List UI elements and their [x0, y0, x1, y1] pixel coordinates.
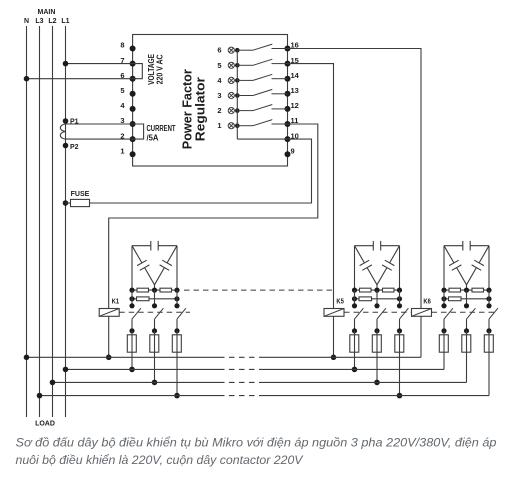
linkage K5 dashed [344, 311, 411, 313]
svg-text:9: 9 [291, 146, 295, 155]
svg-text:1: 1 [217, 121, 221, 130]
wire L2 bus solid right [260, 381, 467, 383]
wire 1 contact bottom 3 [176, 319, 178, 331]
node 1 row1 left [129, 288, 134, 293]
node 1 row1 right [174, 288, 179, 293]
contact 6-2 blade [467, 308, 476, 319]
svg-text:6: 6 [217, 46, 221, 55]
wire L1 bus solid left [66, 368, 220, 370]
contact 1-2 blade [155, 308, 164, 319]
relay contact to pin 16 [237, 44, 287, 50]
svg-text:MAIN: MAIN [38, 9, 56, 16]
svg-text:4: 4 [120, 101, 125, 110]
node 5 row1 left [352, 288, 357, 293]
node 5 fuse top 2 [374, 328, 379, 333]
resistor 6R1 [449, 288, 461, 292]
resistor 5R2 [383, 288, 395, 292]
wire main L1 vertical [65, 26, 67, 417]
capacitor 5c diagonal [377, 246, 400, 285]
node lamp 6 common [235, 48, 240, 53]
capacitor 1c diagonal [155, 246, 178, 285]
node P2 [63, 143, 69, 149]
wire bank 6 resistor row 1 [444, 289, 489, 291]
wire K1 coil to N bus [108, 316, 110, 357]
fuse 1F2 [150, 331, 159, 383]
node N bus start [24, 355, 30, 361]
node K1 on N bus [106, 355, 112, 361]
svg-text:K6: K6 [423, 297, 431, 306]
wire 5 column 2 drop [376, 290, 378, 306]
node 6 row2 right [486, 296, 491, 301]
wire main L2 vertical [52, 26, 54, 417]
fuse 1F1 [127, 331, 136, 370]
contact 1-1 blade [132, 308, 141, 319]
svg-text:P2: P2 [70, 144, 79, 151]
wire 6 column 1 drop [443, 290, 445, 306]
wire 1 column 1 drop [131, 290, 133, 306]
pin 5 terminal [130, 91, 136, 97]
resistor 6R2 [472, 288, 484, 292]
wire N bus dashed gap [219, 356, 260, 358]
node 1 contact top 1 [129, 303, 134, 308]
svg-text:8: 8 [120, 41, 124, 50]
indicator lamp 3 [228, 92, 234, 98]
wire bank 1 right side [176, 246, 178, 290]
svg-text:1: 1 [120, 146, 124, 155]
node 6 row1 mid [464, 288, 469, 293]
node lamp 4 common [235, 78, 240, 83]
wire main N vertical [26, 26, 28, 417]
node lamp 1 common [235, 123, 240, 128]
svg-text:5: 5 [120, 86, 124, 95]
node 6 contact top 1 [441, 303, 446, 308]
wire bank 5 resistor row 2 [355, 298, 400, 300]
wire bank 5 resistor row 1 [355, 289, 400, 291]
node N pin6 junction [24, 76, 30, 82]
wire K6 coil to N bus [420, 316, 422, 357]
dashed continuation row [184, 289, 335, 291]
wire 6 column 2 drop [466, 290, 468, 306]
node lamp 5 common [235, 63, 240, 68]
node 1 contact top 3 [174, 303, 179, 308]
wire common to pin 10 [237, 138, 287, 140]
node K5 on N bus [331, 355, 337, 361]
indicator lamp 2 [228, 108, 234, 114]
fuse 6F1 [439, 331, 448, 370]
wire L1 to fuse [66, 202, 71, 204]
contactor coil K6 [412, 309, 432, 317]
wire lamp common vertical [236, 50, 238, 139]
node L1 bus start [63, 367, 69, 373]
transformer CT secondary [60, 124, 66, 139]
svg-text:5: 5 [217, 61, 221, 70]
capacitor bank 5 top wire [355, 245, 400, 247]
node 6 row2 left [441, 296, 446, 301]
svg-text:13: 13 [291, 86, 299, 95]
pin 11 terminal [285, 121, 291, 127]
wire 5 column 3 drop [399, 290, 401, 306]
pin 7 terminal [130, 61, 136, 67]
relay contact to pin 15 [237, 59, 287, 65]
contact 5-1 blade [355, 308, 364, 319]
pin 16 terminal [285, 46, 291, 52]
wire 1 column 2 drop [154, 290, 156, 306]
node 5 contact top 3 [397, 303, 402, 308]
pin 9 terminal [285, 151, 291, 157]
wire K5 coil to N bus [333, 316, 335, 357]
capacitor 5b diagonal [355, 246, 378, 285]
node 5 row2 left [352, 296, 357, 301]
wire fuse to pin 10 [90, 139, 312, 203]
node 6 fuse top 2 [464, 328, 469, 333]
op-amp regulator box outline [133, 35, 288, 167]
wire L2 bus dashed gap [219, 381, 260, 383]
node 5 row1 mid [374, 288, 379, 293]
resistor 1R3 [137, 297, 150, 301]
linkage K1 dashed [119, 311, 190, 313]
wire CT to pin 3 [66, 123, 133, 125]
svg-text:CURRENT: CURRENT [147, 124, 176, 133]
pin 3 terminal [130, 121, 136, 127]
node 6 fuse top 3 [486, 328, 491, 333]
wire 5 contact bottom 2 [376, 319, 378, 331]
fuse 6F3 [484, 331, 493, 396]
node 1 fuse 1 on bus [129, 367, 135, 373]
node 5 fuse top 1 [352, 328, 357, 333]
capacitor 1b diagonal [132, 246, 155, 285]
fuse F1 control [71, 199, 90, 206]
wire CT to pin 2 [66, 138, 133, 140]
node 1 fuse 2 on bus [152, 380, 158, 386]
wire bank 5 left side [354, 246, 356, 290]
capacitor 5a plates [373, 241, 380, 251]
wire main L3 vertical [39, 26, 41, 417]
svg-text:Sơ đồ đấu dây bộ điều khiển tụ: Sơ đồ đấu dây bộ điều khiển tụ bù Mikro … [16, 436, 497, 450]
capacitor bank 1 top wire [132, 245, 177, 247]
wire 5 contact bottom 3 [399, 319, 401, 331]
wire 1 column 3 drop [176, 290, 178, 306]
fuse 5F3 [395, 331, 404, 396]
node lamp 2 common [235, 108, 240, 113]
node P1 [63, 118, 69, 124]
wire L2 bus solid left [53, 381, 220, 383]
wire pin 11 to K1 coil [109, 124, 318, 309]
svg-text:N: N [24, 18, 29, 25]
svg-text:L1: L1 [61, 18, 69, 25]
node 6 fuse top 1 [441, 328, 446, 333]
wire bank 6 left side [443, 246, 445, 290]
node 1 fuse top 2 [152, 328, 157, 333]
wire L3 bus solid left [40, 395, 220, 397]
contactor coil K1 [99, 309, 119, 317]
node 5 contact top 2 [374, 303, 379, 308]
wire L1 bus dashed gap [219, 368, 260, 370]
node 1 row2 left [129, 296, 134, 301]
node 5 fuse 3 on bus [397, 393, 403, 399]
capacitor 1a plates [151, 241, 158, 251]
contact 6-1 blade [444, 308, 453, 319]
wire L1 to pin 7 [66, 63, 133, 65]
node 1 fuse top 3 [174, 328, 179, 333]
svg-text:220 V AC: 220 V AC [155, 54, 164, 84]
wire 1 contact bottom 1 [131, 319, 133, 331]
node 5 contact top 1 [352, 303, 357, 308]
indicator lamp 4 [228, 77, 234, 83]
wire 6 contact bottom 1 [443, 319, 445, 331]
wire 1 contact bottom 2 [154, 319, 156, 331]
svg-text:/5A: /5A [147, 134, 159, 143]
svg-text:4: 4 [217, 76, 222, 85]
wire 5 column 1 drop [354, 290, 356, 306]
svg-text:Regulator: Regulator [193, 77, 208, 141]
wire bank 6 center stub [466, 285, 468, 290]
wire bank 1 resistor row 1 [132, 289, 177, 291]
svg-text:12: 12 [291, 101, 299, 110]
svg-text:L3: L3 [35, 18, 43, 25]
node 5 row1 right [397, 288, 402, 293]
relay contact to pin 14 [237, 74, 287, 80]
node L1 fuse junction [63, 200, 69, 206]
indicator lamp 5 [228, 62, 234, 68]
resistor 5R1 [360, 288, 372, 292]
capacitor bank 6 top wire [444, 245, 489, 247]
wire 6 contact bottom 3 [488, 319, 490, 331]
wire bank 1 center stub [154, 285, 156, 290]
wire N bus solid left [27, 356, 220, 358]
pin 8 terminal [130, 46, 136, 52]
contact 6-3 blade [489, 308, 498, 319]
resistor 6R3 [449, 297, 462, 301]
node 5 fuse 2 on bus [374, 380, 380, 386]
svg-text:2: 2 [217, 106, 221, 115]
wire N bus solid right [260, 356, 421, 358]
svg-text:K1: K1 [112, 297, 120, 306]
svg-text:3: 3 [217, 91, 221, 100]
wire pin 16 to K6 coil [288, 49, 422, 309]
pin 6 terminal [130, 76, 136, 82]
pin 13 terminal [285, 91, 291, 97]
node 5 fuse top 3 [397, 328, 402, 333]
wire 6 contact bottom 2 [466, 319, 468, 331]
pin 4 terminal [130, 106, 136, 112]
wire bank 1 resistor row 2 [132, 298, 177, 300]
fuse 5F2 [372, 331, 381, 383]
wire L3 bus solid right [260, 395, 489, 397]
node lamp 3 common [235, 93, 240, 98]
svg-text:LOAD: LOAD [35, 421, 55, 428]
node 1 fuse 3 on bus [174, 393, 180, 399]
wire 5 contact bottom 1 [354, 319, 356, 331]
pin 1 terminal [130, 151, 136, 157]
wire bank 6 right side [488, 246, 490, 290]
node 5 row2 right [397, 296, 402, 301]
wire bank 1 left side [131, 246, 133, 290]
wire bank 5 right side [399, 246, 401, 290]
indicator lamp 6 [228, 47, 234, 53]
fuse 5F1 [350, 331, 359, 370]
node 1 row1 mid [152, 288, 157, 293]
svg-text:14: 14 [291, 71, 300, 80]
resistor 1R1 [137, 288, 149, 292]
node 6 row1 left [441, 288, 446, 293]
node 6 contact top 2 [464, 303, 469, 308]
node L2 bus start [50, 380, 56, 386]
svg-text:K5: K5 [336, 297, 344, 306]
svg-text:FUSE: FUSE [71, 191, 90, 198]
pin 12 terminal [285, 106, 291, 112]
node 6 contact top 3 [486, 303, 491, 308]
linkage K6 dashed [432, 311, 498, 313]
contact 5-3 blade [400, 308, 409, 319]
resistor 1R2 [160, 288, 172, 292]
svg-text:nuôi bộ điều khiển là 220V, cu: nuôi bộ điều khiển là 220V, cuộn dây con… [16, 453, 305, 467]
relay contact to pin 11 [237, 120, 287, 126]
resistor 5R3 [359, 297, 372, 301]
wire pin 15 to K5 coil [288, 64, 334, 309]
pin 10 terminal [285, 136, 291, 142]
fuse 6F2 [462, 331, 471, 383]
pin 14 terminal [285, 76, 291, 82]
node L1 pin7 junction [63, 61, 69, 67]
node 1 row2 right [174, 296, 179, 301]
indicator lamp 1 [228, 123, 234, 129]
wire bank 6 resistor row 2 [444, 298, 489, 300]
node 5 fuse 1 on bus [352, 367, 358, 373]
contactor coil K5 [324, 309, 344, 317]
contact 1-3 blade [177, 308, 186, 319]
contact 5-2 blade [377, 308, 386, 319]
current input bracket [133, 124, 144, 139]
node 1 fuse top 1 [129, 328, 134, 333]
relay contact to pin 13 [237, 89, 287, 95]
wire L3 bus dashed gap [219, 395, 260, 397]
svg-text:L2: L2 [48, 18, 56, 25]
wire L1 bus solid right [260, 368, 444, 370]
capacitor 6a plates [463, 241, 470, 251]
capacitor 6c diagonal [467, 246, 490, 285]
voltage input bracket [133, 64, 143, 79]
fuse 1F3 [172, 331, 181, 396]
relay contact to pin 12 [237, 105, 287, 111]
pin 2 terminal [130, 136, 136, 142]
wire N to pin 6 [27, 78, 133, 80]
wire bank 5 center stub [376, 285, 378, 290]
node 1 contact top 2 [152, 303, 157, 308]
capacitor 6b diagonal [444, 246, 467, 285]
node 6 row1 right [486, 288, 491, 293]
pin 15 terminal [285, 61, 291, 67]
node L3 bus start [37, 393, 43, 399]
wire 6 column 3 drop [488, 290, 490, 306]
